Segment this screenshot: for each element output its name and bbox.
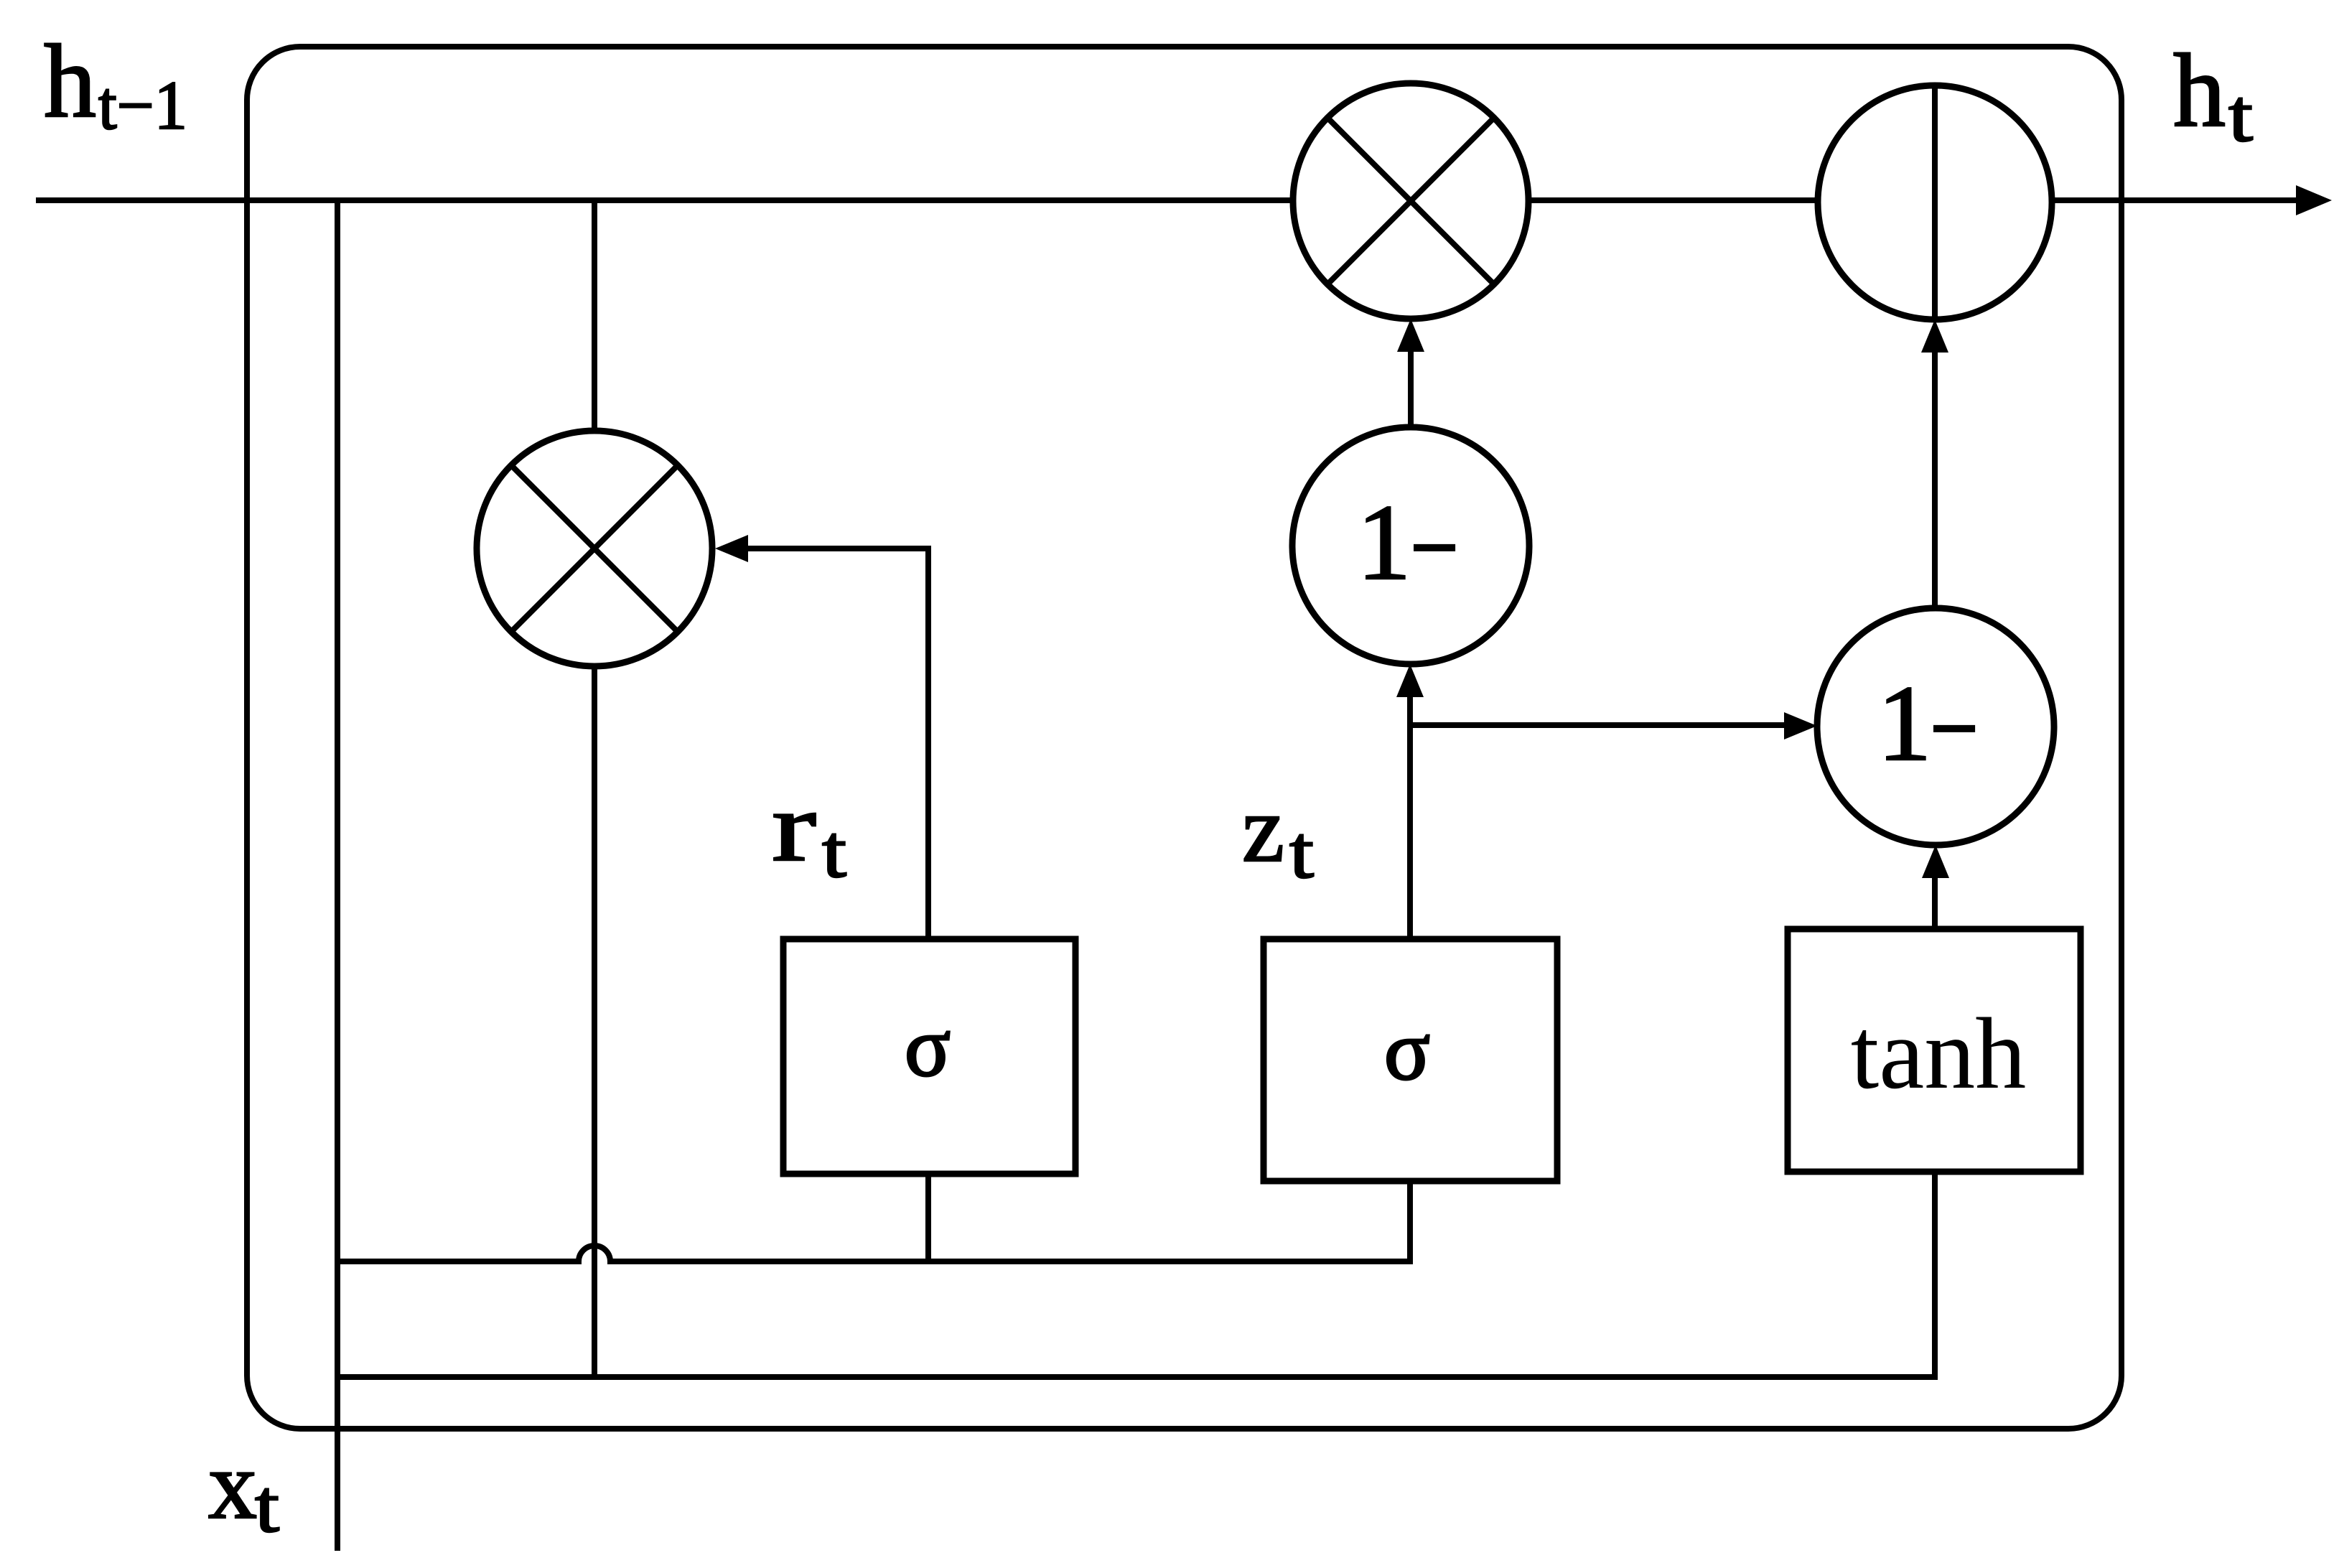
arrowhead: into 1-minus circle (center) xyxy=(1396,664,1424,697)
arrowhead: h_t output arrow xyxy=(2296,185,2332,215)
label: sigma symbol in update gate box xyxy=(1384,1003,1430,1098)
svg-text:1−: 1− xyxy=(1357,482,1459,607)
svg-text:σ: σ xyxy=(905,999,951,1094)
wire: reset multiply node down to bottom bus xyxy=(592,663,597,1377)
svg-text:tanh: tanh xyxy=(1851,997,2026,1110)
wire: tanh bottom input drop xyxy=(1932,1172,1938,1377)
wire: reset gate output up and left to reset multiply node xyxy=(747,549,928,939)
box: sigma gate z (update) xyxy=(1264,939,1557,1181)
node: 1-minus circle (center) xyxy=(1292,427,1529,664)
wire: tanh output up to right 1-minus circle xyxy=(1932,869,1938,929)
arrowhead: into multiply node (top) xyxy=(1397,319,1424,352)
wire: h state line right segment (through add node to h_t output) xyxy=(1527,197,2302,203)
arrowhead: into add node xyxy=(1921,319,1948,353)
wire: input bus to gate boxes with hop over reset branch xyxy=(337,1181,1410,1261)
wire: h/x shared vertical bus xyxy=(335,200,340,1551)
label: r_t xyxy=(772,772,846,893)
add node (top right) xyxy=(1818,85,2052,319)
svg-text:1−: 1− xyxy=(1877,663,1979,788)
box: tanh candidate activation xyxy=(1788,929,2081,1172)
node: 1-minus circle (right) xyxy=(1817,608,2054,845)
wire: update gate output upward xyxy=(1407,688,1413,939)
arrowhead: into 1-minus circle (right) from below xyxy=(1922,845,1949,878)
GRU cell boundary (rounded rectangle) xyxy=(247,47,2121,1429)
wire: reset gate bottom input drop xyxy=(925,1174,931,1261)
label: z_t xyxy=(1242,775,1314,894)
svg-text:σ: σ xyxy=(1384,1003,1430,1098)
label: tanh text xyxy=(1851,997,2026,1110)
wire: 1-minus (right) up to add node xyxy=(1932,343,1938,608)
label: h_t xyxy=(2173,32,2253,157)
arrowhead: into reset multiply node xyxy=(715,535,748,562)
box: sigma gate r (reset) xyxy=(783,939,1075,1174)
wire: bottom bus from x/h vertical to tanh xyxy=(337,1374,1938,1380)
label: sigma symbol in reset gate box xyxy=(905,999,951,1094)
multiply node (left, reset gating) xyxy=(477,431,712,666)
wire: 1-minus (center) up to multiply node xyxy=(1408,342,1414,427)
wire: branch from h line down to reset multiply node xyxy=(592,200,597,434)
wire: h state line left segment (h_{t-1} input to multiply node) xyxy=(36,197,1294,203)
label: h_{t-1} xyxy=(44,23,187,144)
multiply node (top, forget gating) xyxy=(1293,83,1528,319)
label: x_t xyxy=(208,1432,279,1548)
arrowhead: into 1-minus circle (right) xyxy=(1784,712,1817,739)
wire: z_t branch to right 1-minus circle xyxy=(1410,722,1793,728)
